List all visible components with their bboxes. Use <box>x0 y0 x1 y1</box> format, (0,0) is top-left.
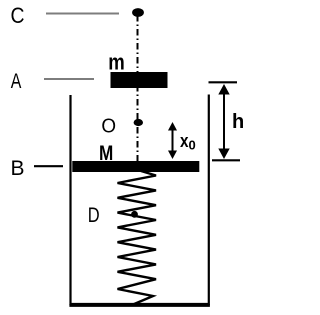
h dimension top tick <box>209 81 238 83</box>
reference line C <box>46 13 119 15</box>
marker dot on spring <box>131 211 138 218</box>
svg-text:C: C <box>11 3 25 28</box>
h dimension bottom tick <box>212 159 240 161</box>
svg-text:h: h <box>232 111 244 133</box>
svg-text:B: B <box>11 157 25 180</box>
container walls <box>71 95 209 305</box>
svg-text:A: A <box>11 70 22 93</box>
spring D <box>118 171 157 305</box>
reference line A <box>44 78 94 80</box>
svg-text:0: 0 <box>189 138 196 153</box>
svg-text:m: m <box>108 50 125 75</box>
platform M <box>72 161 199 172</box>
svg-text:x: x <box>180 131 189 151</box>
svg-text:O: O <box>101 114 116 137</box>
pointer line B <box>34 165 63 167</box>
marker dot at O <box>134 119 143 126</box>
arrow x0 (double-headed) <box>168 122 177 159</box>
ball at level C <box>132 8 144 17</box>
svg-text:D: D <box>88 204 100 227</box>
centerline (dash-dot trajectory) <box>137 15 139 161</box>
arrow h (double-headed) <box>218 84 229 159</box>
mass m block <box>111 72 168 88</box>
